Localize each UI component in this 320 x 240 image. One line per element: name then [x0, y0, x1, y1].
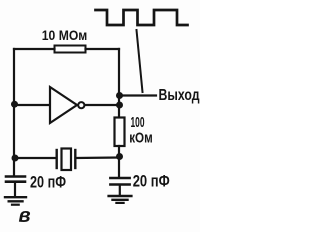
- wire inverter input: [14, 104, 50, 106]
- wire below R2: [118, 146, 120, 177]
- crystal ZQ1 left electrode: [56, 150, 58, 168]
- crystal ZQ1 right electrode: [74, 150, 76, 168]
- wire crystal row right: [76, 156, 119, 159]
- callout line from waveform to output node: [137, 30, 143, 92]
- wire output tap: [119, 94, 156, 96]
- wire C2 to ground: [119, 186, 121, 195]
- wire right vertical upper: [118, 49, 120, 117]
- wire top feedback left segment: [14, 48, 55, 50]
- svg-text:20 пФ: 20 пФ: [133, 172, 170, 190]
- node crystal left junction: [12, 155, 19, 162]
- wire C1 to ground: [14, 183, 16, 196]
- wire crystal row left: [15, 157, 56, 159]
- node inverter input junction: [11, 101, 18, 108]
- capacitor C1 20 pF plates: [6, 175, 25, 178]
- wire left rail: [13, 49, 15, 175]
- svg-text:100: 100: [131, 114, 145, 131]
- ground right: [109, 195, 132, 197]
- capacitor C2 20 pF plates: [110, 177, 129, 180]
- svg-text:20 пФ: 20 пФ: [30, 174, 66, 192]
- svg-text:Выход: Выход: [159, 87, 200, 104]
- ground left: [5, 196, 26, 198]
- inversion bubble: [78, 102, 84, 108]
- resistor R2 100 kOhm: [115, 118, 125, 147]
- crystal ZQ1 body: [62, 149, 72, 171]
- resistor R1 10 MOhm: [55, 46, 86, 53]
- square-wave output waveform: [96, 10, 188, 25]
- node inverter output junction: [116, 102, 123, 109]
- wire inverter output: [85, 104, 119, 106]
- wire top feedback right segment: [86, 48, 120, 50]
- svg-text:10 МОм: 10 МОм: [42, 27, 88, 43]
- node output tap junction: [116, 92, 123, 99]
- svg-text:кОм: кОм: [129, 129, 153, 146]
- op-amp U1 inverter triangle: [50, 87, 77, 123]
- svg-text:в: в: [19, 205, 31, 227]
- node crystal right junction: [116, 153, 123, 160]
